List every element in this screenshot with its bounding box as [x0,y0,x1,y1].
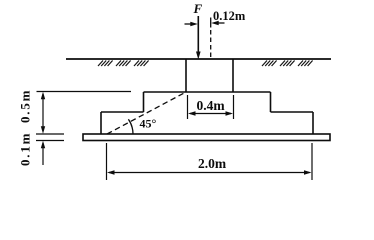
step tier 2 top right [271,111,314,113]
left extension line at slab top [36,133,64,135]
svg-text:0.12m: 0.12m [213,9,246,23]
step tier 2 right side [312,112,314,134]
0.1m dimension tail arrow [41,141,45,165]
column left wall [185,59,187,92]
dimension 0.12m left arrow [185,22,198,26]
0.5m dimension line with arrows [41,92,45,134]
base slab [83,134,330,141]
svg-text:0.1m: 0.1m [18,132,33,166]
svg-text:2.0m: 2.0m [198,156,227,171]
column right wall [232,59,234,92]
step tier 2 top left [101,111,144,113]
svg-text:F: F [193,1,203,16]
step tier 2 left side [100,112,102,134]
step tier 1 right side [270,92,272,112]
0.4m dimension line with arrows [188,111,233,115]
soil hatch cluster right 1 [262,61,277,67]
svg-text:0.4m: 0.4m [197,98,226,113]
step tier 1 top [144,91,271,93]
45 degree dashed line [107,92,186,134]
0.4m dimension left extension line [187,95,189,119]
2.0m dimension right extension line [311,143,313,180]
soil hatch cluster left 3 [134,61,149,67]
column axis dashed line [210,30,212,60]
2.0m dimension left extension line [106,143,108,180]
dimension 0.12m right arrow with tick [211,18,225,28]
svg-text:0.5m: 0.5m [18,89,33,123]
left extension line at tier1 top level [37,91,132,93]
step tier 1 left side [143,92,145,112]
0.4m dimension right extension line [233,95,235,119]
soil hatch cluster left 1 [98,61,113,67]
soil hatch cluster right 3 [298,61,313,67]
force F arrow [196,16,201,60]
ground line [66,58,331,60]
svg-text:45°: 45° [140,117,157,131]
soil hatch cluster right 2 [280,61,295,67]
left extension line at slab bottom [36,140,64,142]
2.0m dimension line with arrows [107,170,312,174]
soil hatch cluster left 2 [116,61,131,67]
45 degree angle arc [128,119,133,134]
